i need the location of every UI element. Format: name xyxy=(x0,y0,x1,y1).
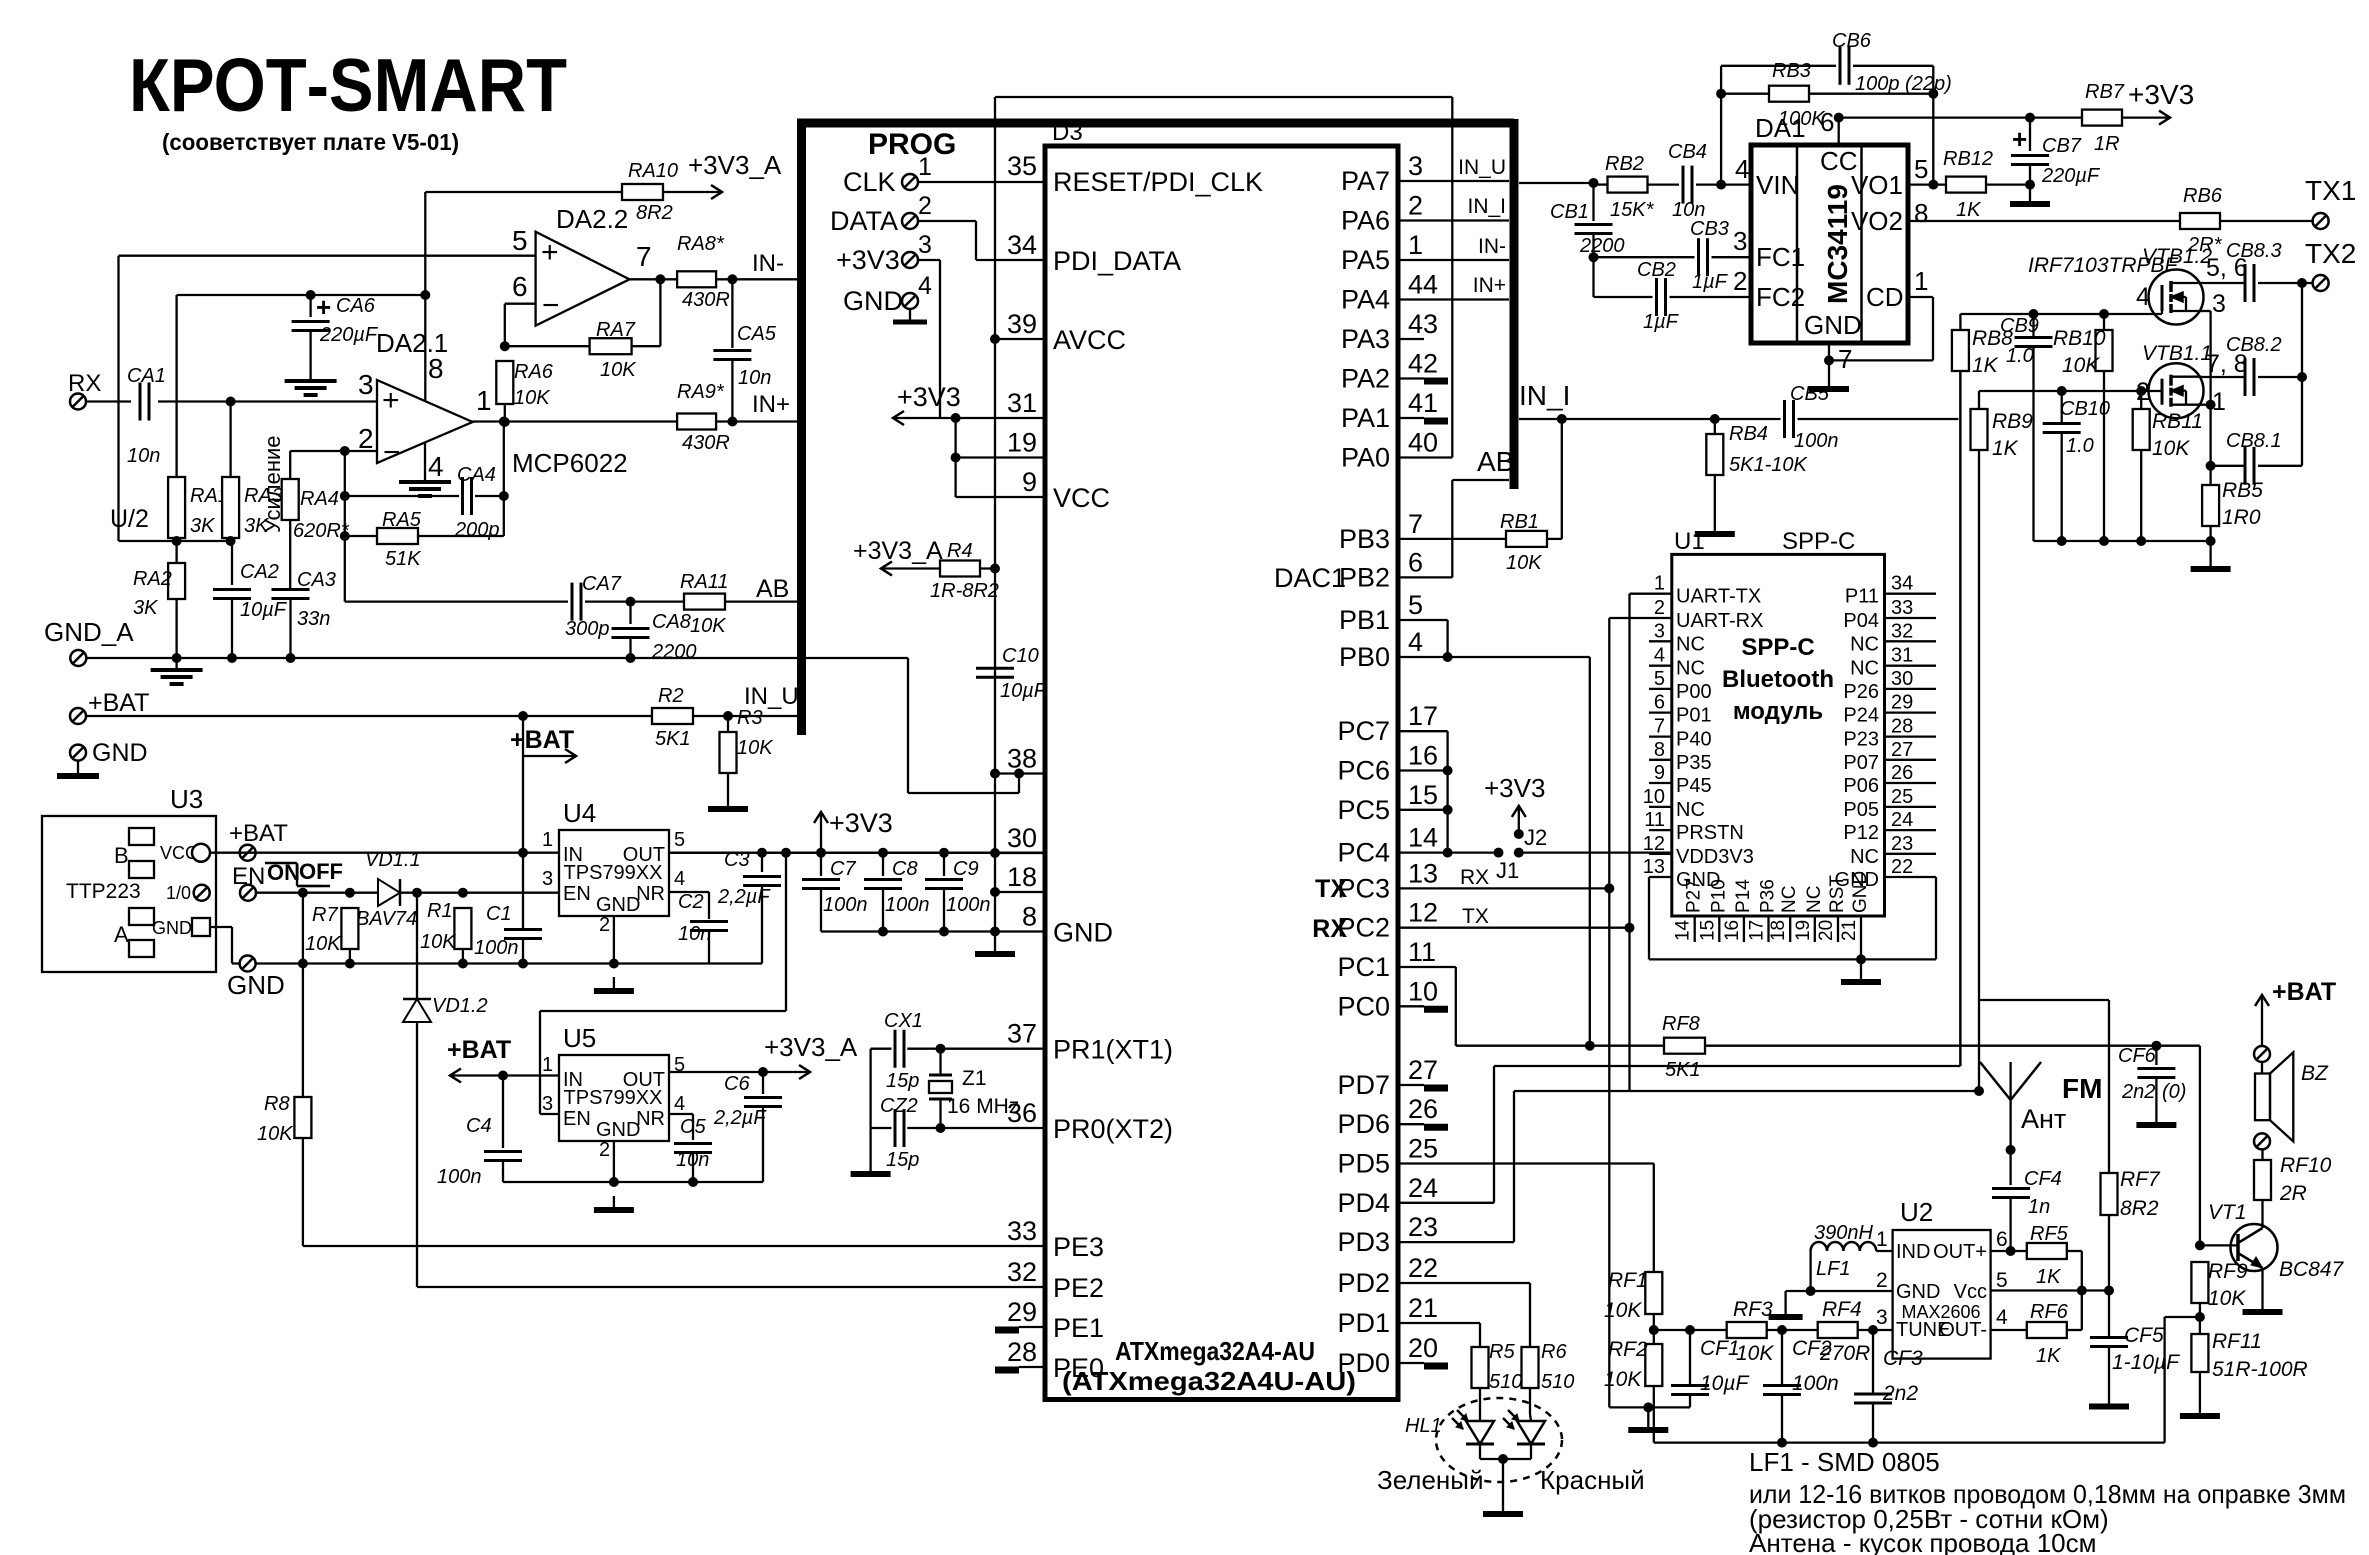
wire GND_A rail xyxy=(86,653,908,663)
resistor R1 xyxy=(420,900,471,964)
title KPOT-SMART xyxy=(129,43,567,127)
ground VT1 xyxy=(2243,1298,2283,1312)
transistor VTB1.1 xyxy=(2142,342,2212,418)
svg-text:CB7: CB7 xyxy=(2042,135,2082,157)
wire PC4 J1 xyxy=(1398,848,1519,883)
svg-text:LF1 - SMD 0805: LF1 - SMD 0805 xyxy=(1749,1447,1940,1477)
svg-text:NC: NC xyxy=(1850,633,1879,655)
svg-text:SPP-C: SPP-C xyxy=(1782,528,1855,555)
svg-text:+: + xyxy=(316,292,331,322)
wire pin38 jog xyxy=(908,658,1045,793)
svg-text:C10: C10 xyxy=(1002,645,1039,667)
svg-text:PDI_DATA: PDI_DATA xyxy=(1053,246,1181,276)
svg-text:Красный: Красный xyxy=(1540,1465,1645,1495)
capacitor CB6 xyxy=(1721,30,1952,95)
wire UART-RX xyxy=(1609,618,1649,1407)
svg-text:NC: NC xyxy=(1676,633,1705,655)
wire PE2 xyxy=(417,1286,1045,1288)
svg-text:31: 31 xyxy=(1007,388,1037,418)
wire PB1 xyxy=(1398,620,1448,657)
svg-text:10K: 10K xyxy=(1604,1368,1642,1391)
svg-text:1: 1 xyxy=(1654,573,1665,595)
svg-text:2: 2 xyxy=(599,1139,610,1161)
wire TUNE row xyxy=(1861,1325,1893,1335)
pin GND U3 xyxy=(152,918,240,964)
svg-text:NC: NC xyxy=(1676,799,1705,821)
svg-text:VIN: VIN xyxy=(1756,170,1799,200)
arrow +3V3 right xyxy=(2122,79,2194,125)
svg-text:3K: 3K xyxy=(190,515,216,537)
nc PD7 xyxy=(1398,1085,1448,1088)
svg-text:2200: 2200 xyxy=(651,641,697,663)
svg-text:RB10: RB10 xyxy=(2053,327,2106,350)
wire gate rail 1 xyxy=(1960,302,2162,319)
svg-text:4: 4 xyxy=(674,1093,685,1115)
terminal PROG DATA xyxy=(830,192,932,236)
svg-text:(сооветствует плате V5-01): (сооветствует плате V5-01) xyxy=(162,129,459,155)
wire PR1 row xyxy=(907,1044,1045,1054)
svg-text:PD3: PD3 xyxy=(1337,1227,1390,1257)
terminal EN xyxy=(232,863,265,901)
svg-text:P12: P12 xyxy=(1843,822,1879,844)
IC U5 box xyxy=(559,1023,669,1141)
svg-text:RF10: RF10 xyxy=(2280,1154,2332,1177)
svg-text:100K: 100K xyxy=(1778,108,1826,130)
resistor RB1 xyxy=(1500,419,1562,574)
wire PC2 xyxy=(1398,923,1635,933)
svg-text:Ант: Ант xyxy=(2021,1104,2066,1134)
svg-text:UART-TX: UART-TX xyxy=(1676,586,1761,608)
svg-text:C3: C3 xyxy=(724,849,750,871)
wire C789 gnd rail xyxy=(821,927,995,937)
resistor RB5 xyxy=(2202,479,2263,529)
svg-text:2: 2 xyxy=(1408,191,1423,221)
svg-text:RX: RX xyxy=(1460,866,1489,889)
svg-text:B: B xyxy=(114,843,129,868)
capacitor C7 xyxy=(802,853,868,932)
node U/2 wire xyxy=(110,505,236,546)
svg-text:PRSTN: PRSTN xyxy=(1676,822,1744,844)
svg-text:CF6: CF6 xyxy=(2118,1045,2157,1067)
svg-text:19: 19 xyxy=(1007,428,1037,458)
svg-text:RB3: RB3 xyxy=(1772,60,1811,82)
ground under RB4 xyxy=(1695,520,1735,534)
svg-text:GND: GND xyxy=(152,918,192,938)
svg-text:7: 7 xyxy=(1838,344,1852,374)
svg-text:C9: C9 xyxy=(953,858,979,880)
svg-text:10K: 10K xyxy=(2152,437,2190,460)
label FM xyxy=(2062,1073,2102,1104)
svg-text:GND: GND xyxy=(843,286,903,316)
svg-text:6: 6 xyxy=(1996,1228,2008,1251)
svg-text:1K: 1K xyxy=(1992,437,2019,460)
label U1 xyxy=(1674,528,1855,555)
svg-text:1-10µF: 1-10µF xyxy=(2112,1351,2180,1374)
svg-text:P05: P05 xyxy=(1843,799,1879,821)
capacitor CB9 xyxy=(2000,314,2053,541)
svg-text:2n2: 2n2 xyxy=(2121,1081,2155,1103)
svg-text:3: 3 xyxy=(1733,226,1747,256)
svg-text:6: 6 xyxy=(512,271,528,302)
svg-text:CF3: CF3 xyxy=(1883,1347,1923,1370)
wire CF1 gnd row xyxy=(1609,1402,1690,1416)
svg-text:VT1: VT1 xyxy=(2208,1201,2247,1224)
wire gate rail 2 xyxy=(1979,379,2162,396)
svg-text:23: 23 xyxy=(1891,833,1913,855)
svg-text:DAC1: DAC1 xyxy=(1274,563,1346,593)
svg-text:41: 41 xyxy=(1408,388,1438,418)
ground U1 xyxy=(1841,968,1881,982)
resistor RB3 xyxy=(1769,60,1826,130)
svg-text:25: 25 xyxy=(1891,786,1913,808)
svg-text:1n: 1n xyxy=(2028,1196,2050,1218)
wire CD pin xyxy=(1824,297,1933,365)
svg-text:2: 2 xyxy=(1654,597,1665,619)
svg-text:CB8.3: CB8.3 xyxy=(2226,240,2282,262)
svg-text:VTB1.2: VTB1.2 xyxy=(2142,245,2212,268)
capacitor CB8.2 xyxy=(2226,334,2302,396)
svg-text:IN+: IN+ xyxy=(752,391,790,418)
label TX right xyxy=(1462,905,1489,928)
svg-text:RF6: RF6 xyxy=(2030,1301,2069,1323)
terminal +BAT xyxy=(70,689,149,724)
ground RF11 xyxy=(2180,1402,2220,1416)
svg-text:16: 16 xyxy=(1722,920,1743,941)
svg-text:RA2: RA2 xyxy=(133,568,172,590)
resistor RA2 xyxy=(133,541,185,658)
wire +BAT rail xyxy=(86,711,652,721)
wire pin1 out xyxy=(473,417,677,427)
svg-text:30: 30 xyxy=(1007,823,1037,853)
wire U5 OUT row xyxy=(669,1067,768,1077)
nc PE1 xyxy=(995,1327,1045,1330)
resistor RF9 xyxy=(2191,1260,2248,1334)
svg-text:PD5: PD5 xyxy=(1337,1149,1390,1179)
svg-text:22: 22 xyxy=(1891,856,1913,878)
svg-text:39: 39 xyxy=(1007,309,1037,339)
wire CLK xyxy=(918,181,1045,183)
svg-text:43: 43 xyxy=(1408,309,1438,339)
label Зеленый xyxy=(1377,1465,1484,1495)
svg-text:12: 12 xyxy=(1408,898,1438,928)
svg-text:IN_U: IN_U xyxy=(1458,156,1506,179)
svg-text:C8: C8 xyxy=(892,858,918,880)
svg-text:CB9: CB9 xyxy=(2000,315,2039,337)
svg-text:VCC: VCC xyxy=(1053,483,1110,513)
svg-text:AB: AB xyxy=(756,575,789,603)
wire PD1 xyxy=(1398,1323,1480,1347)
svg-text:10n: 10n xyxy=(127,445,160,467)
resistor R5 xyxy=(1472,1341,1523,1414)
svg-text:FM: FM xyxy=(2062,1073,2102,1104)
ground under RA2 xyxy=(151,653,203,684)
svg-text:3: 3 xyxy=(918,231,932,259)
capacitor C6 xyxy=(713,1072,782,1182)
svg-text:1K: 1K xyxy=(1956,199,1982,221)
terminal RX xyxy=(68,370,101,410)
ground under CB7 xyxy=(2010,190,2050,204)
svg-text:GND_A: GND_A xyxy=(44,617,134,647)
wire pin18 stub xyxy=(995,891,1045,893)
svg-text:2,2µF: 2,2µF xyxy=(717,886,771,908)
svg-text:100p (22p): 100p (22p) xyxy=(1855,73,1952,95)
label PROG xyxy=(868,128,956,161)
pin numbers DA1 xyxy=(1733,107,1928,374)
resistor RF4 xyxy=(1818,1298,1871,1365)
jumper J2 xyxy=(1484,773,1547,858)
svg-text:10K: 10K xyxy=(2062,354,2100,377)
note LF1 line4 xyxy=(1749,1528,2096,1555)
svg-text:4: 4 xyxy=(2136,283,2150,311)
subtitle board version xyxy=(162,129,459,155)
svg-text:TX1: TX1 xyxy=(2305,175,2356,206)
wire PA0 xyxy=(1398,456,1452,458)
svg-text:BZ: BZ xyxy=(2301,1062,2329,1085)
svg-text:OUT-: OUT- xyxy=(1939,1319,1987,1341)
svg-text:PD0: PD0 xyxy=(1337,1348,1390,1378)
pin VCC U3 xyxy=(160,843,210,863)
svg-text:КРОТ-SMART: КРОТ-SMART xyxy=(129,43,567,127)
svg-text:+3V3_A: +3V3_A xyxy=(764,1032,858,1062)
svg-text:PA5: PA5 xyxy=(1341,245,1390,275)
wire AB tap xyxy=(1398,446,1514,577)
svg-text:−: − xyxy=(542,289,560,322)
terminal BZ top xyxy=(2254,1046,2270,1074)
capacitor CZ2 xyxy=(880,1095,919,1171)
svg-text:PROG: PROG xyxy=(868,128,956,161)
svg-text:EN: EN xyxy=(563,1108,591,1130)
svg-text:+BAT: +BAT xyxy=(229,820,288,847)
svg-text:Антена - кусок провода 10см: Антена - кусок провода 10см xyxy=(1749,1528,2096,1555)
svg-text:CF4: CF4 xyxy=(2024,1168,2062,1190)
label +BAT U5 xyxy=(447,1036,559,1083)
svg-text:RA11: RA11 xyxy=(680,571,729,593)
svg-text:35: 35 xyxy=(1007,151,1037,181)
svg-text:U2: U2 xyxy=(1900,1197,1933,1227)
label RX PC2 xyxy=(1312,915,1347,943)
svg-text:28: 28 xyxy=(1007,1337,1037,1367)
capacitor CA6 xyxy=(292,292,379,369)
pin 1/0 U3 xyxy=(166,883,210,903)
capacitor C1 xyxy=(474,853,542,964)
svg-text:7: 7 xyxy=(636,241,652,272)
ground under CA6 xyxy=(285,369,337,395)
wire avcc stub xyxy=(995,338,1045,340)
svg-text:C5: C5 xyxy=(680,1116,706,1138)
svg-text:BC847: BC847 xyxy=(2279,1258,2345,1281)
wire 3V3 drop right xyxy=(785,853,787,1011)
svg-text:430R: 430R xyxy=(682,432,730,454)
svg-text:CA8: CA8 xyxy=(652,611,691,633)
capacitor CF4 xyxy=(1992,1168,2062,1256)
wire OUT+ row xyxy=(1991,1250,2027,1252)
svg-text:P01: P01 xyxy=(1676,705,1712,727)
wire IN- to bus xyxy=(716,250,801,284)
svg-text:4: 4 xyxy=(1996,1306,2008,1329)
wire mosfet gnd rail xyxy=(2034,536,2216,555)
capacitor CA4 xyxy=(340,464,509,541)
svg-text:510: 510 xyxy=(1541,1371,1574,1393)
wire +BAT drop xyxy=(518,716,528,858)
wire PD4 xyxy=(1398,371,1960,1203)
svg-text:(ATXmega32A4U-AU): (ATXmega32A4U-AU) xyxy=(1062,1366,1356,1396)
ground LEDs xyxy=(1483,1500,1523,1514)
label +3V3_A out xyxy=(764,1032,858,1079)
svg-text:220µF: 220µF xyxy=(319,324,379,346)
svg-text:U3: U3 xyxy=(170,784,203,814)
svg-text:9: 9 xyxy=(1022,467,1037,497)
resistor RF8 xyxy=(1662,1013,1705,1081)
svg-text:P10: P10 xyxy=(1708,879,1729,913)
svg-text:10n: 10n xyxy=(678,923,711,945)
svg-text:1R0: 1R0 xyxy=(2222,506,2261,529)
wire vcc drop xyxy=(951,418,961,497)
nc PD6 xyxy=(1398,1124,1448,1127)
wire PA4 IN+ xyxy=(1398,274,1509,300)
svg-text:R6: R6 xyxy=(1541,1341,1567,1363)
svg-text:1K: 1K xyxy=(2036,1345,2062,1367)
svg-text:100n: 100n xyxy=(946,894,991,916)
label D3 xyxy=(1052,119,1083,146)
svg-text:IN_I: IN_I xyxy=(1467,195,1506,218)
resistor RB9 xyxy=(1971,391,2034,1000)
svg-text:CB4: CB4 xyxy=(1668,141,1707,163)
capacitor CA7 xyxy=(565,573,622,640)
wire PB3 row xyxy=(1398,538,1506,540)
svg-text:1µF: 1µF xyxy=(1643,311,1680,333)
ground under CF5 xyxy=(2089,1393,2129,1407)
wire pin8 stub xyxy=(995,930,1045,932)
diode VD1.2 xyxy=(403,893,488,1287)
capacitor C3 xyxy=(717,849,781,964)
svg-text:RF11: RF11 xyxy=(2212,1330,2262,1353)
capacitor CA5 xyxy=(713,279,776,421)
resistor RB2 xyxy=(1594,153,1655,221)
speaker BZ xyxy=(2255,1052,2329,1141)
wire PR0 row xyxy=(907,1123,1045,1133)
svg-text:R5: R5 xyxy=(1489,1341,1515,1363)
wire CB8.1 row xyxy=(2206,461,2245,471)
label +3V3 tap xyxy=(814,808,893,858)
svg-text:PC4: PC4 xyxy=(1337,838,1390,868)
svg-text:NC: NC xyxy=(1804,886,1825,913)
svg-text:PD6: PD6 xyxy=(1337,1109,1390,1139)
capacitor CX1 xyxy=(884,1010,923,1092)
svg-text:RB7: RB7 xyxy=(2085,81,2125,103)
svg-text:DA2.2: DA2.2 xyxy=(556,204,628,234)
svg-text:RA7: RA7 xyxy=(596,319,636,341)
svg-text:MAX2606: MAX2606 xyxy=(1901,1302,1980,1322)
svg-text:Vcc: Vcc xyxy=(1954,1281,1987,1303)
svg-text:GND: GND xyxy=(1850,871,1871,913)
svg-text:12: 12 xyxy=(1643,833,1665,855)
resistor RB10 xyxy=(2053,314,2113,541)
capacitor CF1 xyxy=(1671,1330,1749,1407)
svg-text:RF3: RF3 xyxy=(1733,1298,1773,1321)
wire FC2 row xyxy=(1594,296,1653,298)
svg-text:220µF: 220µF xyxy=(2041,165,2101,187)
svg-text:33: 33 xyxy=(1891,597,1913,619)
capacitor C8 xyxy=(864,848,930,932)
svg-text:CB10: CB10 xyxy=(2060,398,2110,420)
wire pin30 stub xyxy=(995,852,1045,854)
pad B2 xyxy=(129,861,154,878)
svg-text:IN_I: IN_I xyxy=(1519,380,1570,411)
svg-text:10K: 10K xyxy=(600,359,637,381)
pins U1 right xyxy=(1835,573,1936,891)
label ATXmega32A4-AU xyxy=(1062,1336,1356,1396)
svg-text:VD1.1: VD1.1 xyxy=(365,849,421,871)
resistor RB8 xyxy=(1952,314,2013,377)
svg-text:10µF: 10µF xyxy=(1700,1372,1749,1395)
svg-text:7: 7 xyxy=(1654,716,1665,738)
wire CC row xyxy=(1839,116,2082,118)
svg-text:2: 2 xyxy=(1876,1269,1888,1292)
resistor R7 xyxy=(305,904,358,964)
svg-text:3: 3 xyxy=(1876,1306,1888,1329)
svg-text:4: 4 xyxy=(1408,627,1423,657)
svg-text:P40: P40 xyxy=(1676,729,1712,751)
svg-text:PA4: PA4 xyxy=(1341,285,1390,315)
wire UART-TX xyxy=(1630,594,1650,1091)
svg-text:CZ2: CZ2 xyxy=(880,1095,918,1117)
svg-text:16 MHz: 16 MHz xyxy=(947,1095,1019,1118)
svg-text:4: 4 xyxy=(918,272,932,300)
resistor RF1 xyxy=(1604,1269,1662,1344)
svg-text:−: − xyxy=(383,436,401,469)
svg-text:+3V3_A: +3V3_A xyxy=(853,537,943,565)
capacitor CA2 xyxy=(213,541,288,658)
svg-text:CX1: CX1 xyxy=(884,1010,923,1032)
svg-text:2,2µF: 2,2µF xyxy=(713,1107,767,1129)
svg-text:P36: P36 xyxy=(1758,879,1779,913)
svg-text:OFF: OFF xyxy=(299,859,343,884)
svg-text:+3V3: +3V3 xyxy=(829,808,893,838)
nc PE0 xyxy=(995,1367,1045,1370)
svg-text:2: 2 xyxy=(599,914,610,936)
labels D3 left pins xyxy=(1007,151,1263,1383)
wire RA11 to bus xyxy=(725,575,801,603)
wire EN to U4 xyxy=(412,888,559,898)
svg-text:AB: AB xyxy=(1477,446,1514,477)
svg-text:P45: P45 xyxy=(1676,775,1712,797)
capacitor C10 xyxy=(976,645,1048,702)
wire OUT- row xyxy=(1991,1329,2027,1331)
wire PC1 xyxy=(1398,967,1664,1046)
wire FC1 row xyxy=(1594,256,1695,258)
svg-text:+BAT: +BAT xyxy=(2272,978,2336,1006)
nc PC0 xyxy=(1398,1006,1448,1009)
resistor RB7 xyxy=(2082,81,2125,155)
svg-text:17: 17 xyxy=(1408,701,1438,731)
resistor RF2 xyxy=(1604,1338,1662,1443)
svg-text:1: 1 xyxy=(476,385,492,416)
svg-text:1: 1 xyxy=(542,1054,553,1076)
svg-text:51K: 51K xyxy=(385,548,422,570)
svg-text:17: 17 xyxy=(1747,920,1768,941)
wire +3V3 pin31 xyxy=(893,411,1045,425)
ground under C10 xyxy=(975,940,1015,954)
wire CA7 to RA11 xyxy=(585,597,684,607)
svg-text:CA6: CA6 xyxy=(336,295,376,317)
svg-text:33n: 33n xyxy=(297,608,330,630)
svg-text:27: 27 xyxy=(1408,1055,1438,1085)
svg-text:2R: 2R xyxy=(2279,1182,2307,1205)
svg-text:11: 11 xyxy=(1408,937,1436,967)
svg-text:C6: C6 xyxy=(724,1073,750,1095)
svg-text:15K*: 15K* xyxy=(1610,199,1655,221)
svg-text:3: 3 xyxy=(1654,620,1665,642)
